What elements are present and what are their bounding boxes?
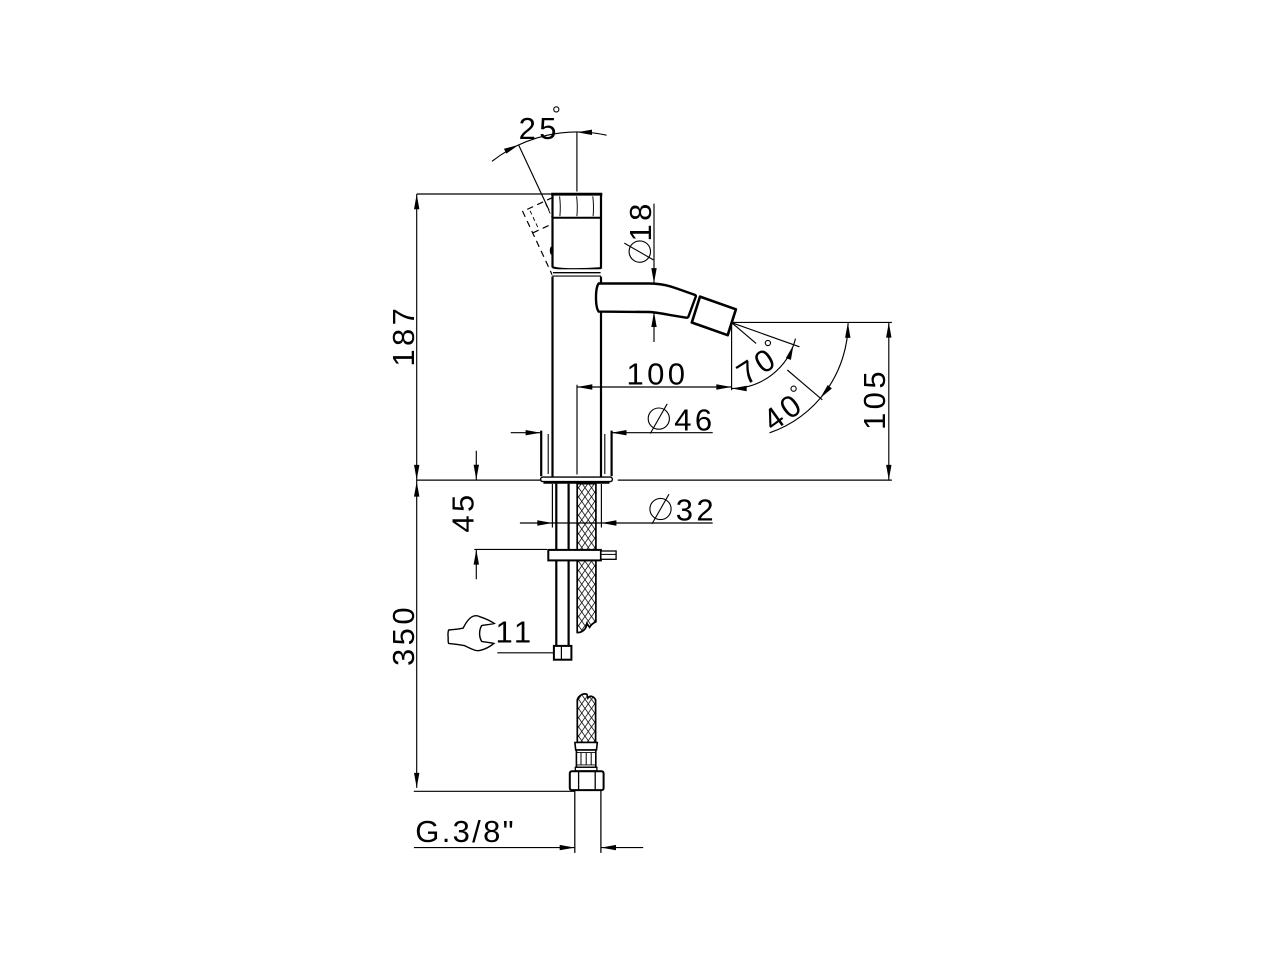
svg-text:45: 45 (446, 491, 481, 532)
25 deg vertical reference (576, 133, 578, 192)
handle rotated 25 deg (dashed phantom position) (523, 197, 585, 278)
hose crimp collar (575, 743, 597, 751)
dim G3/8 line (414, 847, 643, 849)
svg-text:32: 32 (676, 492, 717, 527)
aerator end piece (692, 297, 736, 336)
arrow dim187 top (414, 194, 419, 209)
svg-text:105: 105 (857, 368, 892, 430)
arrow arc40 top (845, 323, 851, 338)
arc 70 deg (732, 339, 796, 389)
dim 187 extension top (417, 193, 553, 195)
arrow dim32 right (601, 520, 616, 525)
braided hose lower piece (577, 694, 595, 743)
jet horizontal reference (732, 321, 892, 323)
wrench symbol (448, 616, 494, 651)
dim 45 vertical + short horiz (474, 451, 547, 579)
dim 187/350 vertical line (416, 194, 418, 788)
knob knurl band line (553, 217, 602, 219)
degree symbol 70 (765, 340, 770, 345)
degree symbol 25 (554, 107, 559, 112)
arrow dim32 left (537, 520, 552, 525)
dim phi32 line + extensions (520, 484, 713, 528)
arrow arc70 bottom (732, 386, 747, 391)
G3/8 nut (570, 771, 604, 790)
knob bottom edge (552, 267, 601, 269)
arrow arc25 left (504, 142, 520, 153)
arrow dim18 top (651, 268, 656, 283)
knob grip marks (560, 196, 594, 216)
dim phi46 line (511, 432, 713, 434)
mounting bracket washer plate (548, 550, 601, 561)
degree symbol 40 (791, 386, 796, 391)
arrow dim45 bottom (474, 550, 479, 565)
arrow arc40 bottom (818, 385, 832, 400)
flange (base of column) (540, 431, 542, 477)
svg-text:G.3/8": G.3/8" (415, 814, 516, 849)
svg-text:46: 46 (674, 403, 715, 438)
arrow dim105 top (886, 323, 891, 338)
deck / mounting surface line (417, 479, 892, 481)
base gasket plate (541, 477, 613, 482)
neck between handle and column (552, 269, 601, 276)
diameter symbol 46 (648, 408, 669, 429)
hose corrugated section (576, 750, 595, 767)
wrench leader line (497, 652, 554, 654)
svg-text:187: 187 (386, 305, 421, 367)
connector tube (574, 790, 576, 853)
handle set screw (550, 246, 554, 255)
braided hose upper piece (577, 484, 596, 633)
arrow dim187 bottom (414, 465, 419, 480)
arrow dim350 bottom (414, 773, 419, 788)
dim 100 line + center extension (577, 385, 731, 475)
svg-text:350: 350 (386, 604, 421, 666)
arrow dimG38 right (601, 845, 616, 850)
dim phi18 vertical (653, 204, 655, 342)
25 deg rotation axis line (519, 145, 549, 210)
arrow arc25 right (577, 130, 592, 135)
25 deg arc (492, 132, 607, 161)
arrow dimG38 left (560, 845, 575, 850)
dim 350 extension bottom (414, 790, 575, 792)
arc 40 deg (770, 323, 849, 433)
svg-text:100: 100 (627, 357, 689, 392)
diameter symbol 18 (629, 241, 650, 262)
spout (white fill covers column edge behind) (596, 284, 696, 318)
column (body) (553, 277, 602, 477)
svg-text:11: 11 (496, 615, 535, 650)
handle knob (solid, upright) (553, 194, 602, 268)
arrow dim45 top (474, 465, 479, 480)
svg-text:18: 18 (623, 200, 658, 241)
connector ring (575, 767, 597, 771)
arrow arc70 top (786, 344, 796, 360)
threaded stud (555, 484, 557, 646)
arrow dim100 left (577, 384, 592, 389)
arrow dim350 top (414, 482, 419, 497)
jet ray 70deg (732, 323, 800, 347)
arrow dim46 right (612, 430, 627, 435)
stud end nut (554, 646, 572, 660)
arrow dim100 right (716, 384, 731, 389)
jet vertical reference (731, 323, 733, 391)
dim 105 vertical (888, 322, 890, 480)
arrow dim18 bottom (651, 312, 656, 327)
diameter symbol 32 (650, 498, 671, 519)
jet ray 40deg (732, 323, 823, 400)
svg-text:25: 25 (519, 111, 560, 146)
arrow dim105 bottom (886, 465, 891, 480)
arrow dim46 left (526, 430, 541, 435)
